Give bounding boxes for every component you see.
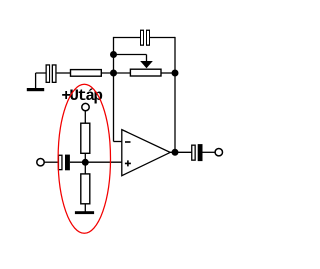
wire R3 to ground: [84, 204, 86, 212]
node output: [172, 149, 179, 156]
resistor R2: [81, 123, 90, 153]
wire input terminal to C3: [44, 161, 58, 163]
ground GND1: [27, 88, 44, 91]
terminal input: [37, 159, 44, 166]
node input row: [110, 70, 117, 77]
op-amp U1 minus sign: [125, 141, 131, 143]
capacitor C2: [46, 64, 57, 83]
wire Utap to R2: [84, 111, 86, 123]
op-amp U1: [122, 130, 170, 176]
terminal output: [215, 149, 222, 156]
capacitor C1: [140, 30, 150, 46]
ground GND1 stem: [36, 73, 46, 89]
wire C2 to R1: [57, 72, 71, 74]
node wiper tap: [110, 51, 117, 58]
wire pot left: [102, 72, 130, 74]
wire right vertical bus: [174, 37, 176, 152]
potentiometer P1 body: [130, 69, 161, 76]
wire op-amp output: [170, 151, 192, 153]
capacitor C3: [58, 155, 70, 171]
wire pot right: [161, 72, 175, 74]
annotation red ellipse: [58, 84, 110, 233]
wire top cap right: [150, 37, 175, 39]
potentiometer P1 wiper arrow: [140, 61, 153, 68]
wire R2 to node: [84, 153, 86, 174]
wire top cap left: [114, 37, 141, 39]
wire C4 to output terminal: [203, 151, 216, 153]
ground GND2: [75, 211, 94, 214]
wire wiper vertical: [146, 55, 148, 62]
op-amp U1 plus sign: [125, 160, 131, 166]
resistor R1: [71, 70, 102, 77]
node pot right: [172, 70, 179, 77]
node divider: [82, 159, 89, 166]
capacitor C4: [191, 144, 202, 161]
wire wiper horizontal: [114, 54, 147, 56]
terminal +Utap: [82, 103, 89, 110]
resistor R3: [81, 174, 90, 204]
wire inverting input: [114, 141, 122, 143]
wire C3 to op-amp: [70, 161, 122, 163]
wire left vertical bus: [113, 37, 115, 142]
